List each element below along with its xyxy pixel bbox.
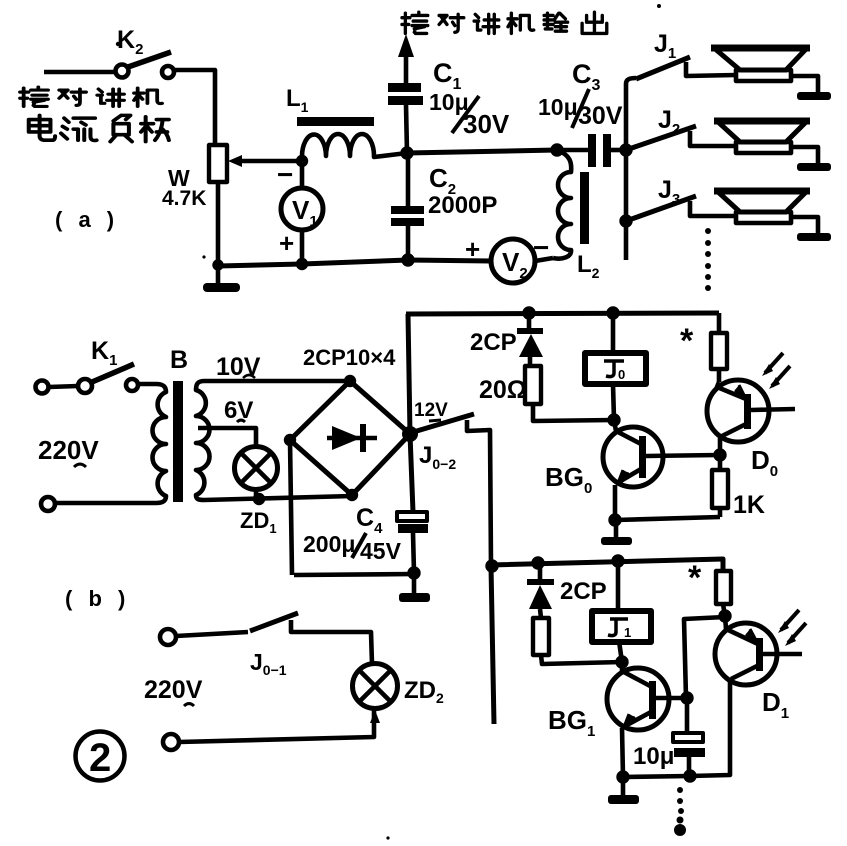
svg-text:30V: 30V (463, 109, 510, 139)
svg-text:D0: D0 (751, 445, 778, 480)
svg-text:200μ: 200μ (303, 531, 355, 557)
svg-text:J0−2: J0−2 (419, 442, 456, 472)
svg-text:2CP: 2CP (470, 329, 517, 356)
svg-text:1K: 1K (733, 491, 765, 519)
svg-text:J2: J2 (658, 106, 680, 138)
svg-text:( b ): ( b ) (65, 586, 130, 611)
svg-text:V1: V1 (292, 195, 318, 230)
svg-text:BG0: BG0 (545, 462, 592, 497)
svg-text:10μ: 10μ (538, 94, 578, 120)
svg-text:*: * (680, 322, 694, 360)
svg-text:2: 2 (89, 736, 111, 780)
svg-text:C4: C4 (356, 504, 383, 537)
svg-text:220V: 220V (38, 435, 99, 465)
svg-text:ZD1: ZD1 (240, 508, 277, 536)
svg-text:0: 0 (618, 367, 625, 382)
svg-text:J0−1: J0−1 (250, 649, 287, 678)
svg-text:C3: C3 (572, 59, 601, 94)
svg-text:BG1: BG1 (548, 705, 595, 740)
svg-text:−: − (533, 232, 549, 263)
svg-text:20Ω: 20Ω (479, 376, 527, 404)
svg-text:220V: 220V (144, 676, 203, 704)
svg-text:−: − (277, 159, 293, 190)
svg-text:10μ: 10μ (633, 743, 674, 770)
svg-text:V2: V2 (502, 247, 528, 282)
svg-text:45V: 45V (360, 538, 402, 564)
svg-text:K2: K2 (117, 26, 143, 58)
svg-text:+: + (465, 234, 480, 264)
svg-text:C1: C1 (433, 58, 462, 93)
svg-text:30V: 30V (578, 102, 623, 130)
svg-text:*: * (688, 559, 702, 597)
svg-text:2CP: 2CP (560, 578, 607, 605)
svg-text:D1: D1 (762, 687, 789, 722)
svg-text:12V: 12V (414, 400, 448, 421)
svg-text:J1: J1 (654, 30, 676, 62)
svg-text:2CP10×4: 2CP10×4 (303, 345, 396, 370)
svg-text:+: + (279, 228, 294, 258)
svg-text:B: B (170, 346, 188, 374)
svg-text:L1: L1 (286, 85, 309, 115)
svg-text:2000P: 2000P (428, 192, 497, 219)
svg-text:( a ): ( a ) (55, 207, 119, 232)
svg-text:ZD2: ZD2 (404, 677, 444, 706)
svg-text:L2: L2 (577, 251, 600, 281)
svg-text:J3: J3 (658, 176, 680, 208)
svg-text:K1: K1 (91, 337, 117, 369)
svg-text:1: 1 (624, 625, 631, 640)
svg-text:4.7K: 4.7K (162, 187, 206, 210)
